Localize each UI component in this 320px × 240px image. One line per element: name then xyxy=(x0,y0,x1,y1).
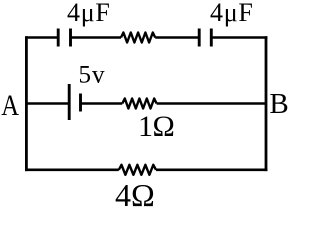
wire: R3 to bottom-right corner xyxy=(156,169,267,172)
wire: left vertical bus (node A side) xyxy=(25,36,28,171)
wire: right vertical bus (node B side) xyxy=(265,36,268,171)
wire: C1 to R1 xyxy=(71,36,122,39)
resistor R2 xyxy=(122,99,156,109)
svg-text:4μF: 4μF xyxy=(67,0,111,27)
svg-text:A: A xyxy=(1,89,19,122)
wire: battery to R2 xyxy=(81,102,123,105)
resistor R3 xyxy=(119,165,156,175)
capacitor C2 xyxy=(199,29,211,47)
svg-text:4μF: 4μF xyxy=(210,0,254,27)
resistor R1 xyxy=(121,33,155,43)
wire: middle branch, node A to battery positive plate xyxy=(26,102,69,105)
wire: C2 to top-right corner xyxy=(211,36,267,39)
wire: top branch, left corner to C1 xyxy=(25,36,58,39)
svg-text:5v: 5v xyxy=(79,61,106,88)
battery V1 negative (short) plate xyxy=(79,94,82,112)
svg-text:1Ω: 1Ω xyxy=(138,110,174,143)
wire: R2 to node B xyxy=(157,102,266,105)
capacitor C1 xyxy=(58,29,70,47)
wire: bottom branch, left corner to R3 xyxy=(25,169,119,172)
battery V1 positive (long) plate xyxy=(68,84,71,120)
svg-text:4Ω: 4Ω xyxy=(115,177,155,209)
wire: R1 to C2 xyxy=(155,36,199,39)
svg-text:B: B xyxy=(269,88,288,120)
